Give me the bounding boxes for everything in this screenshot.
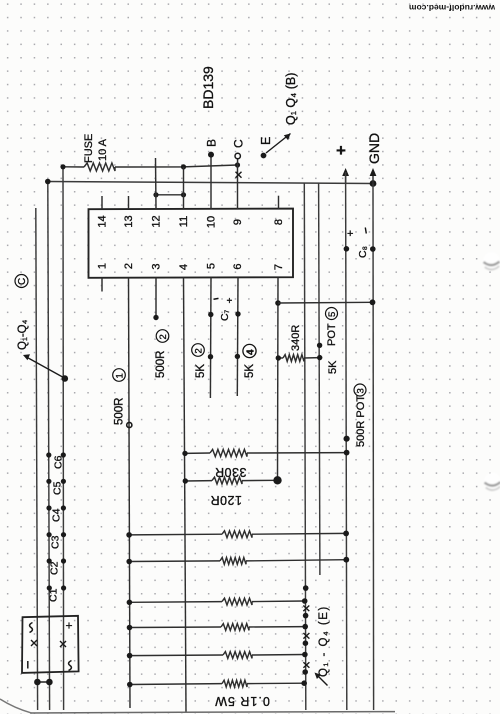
svg-text:10 A: 10 A [97, 138, 109, 161]
svg-text:C1: C1 [48, 588, 60, 602]
x mark on emitter rail between rows 5-6 [303, 606, 309, 612]
BR1 x mark right [60, 641, 66, 647]
svg-text:3: 3 [355, 388, 366, 393]
node tap dot for Q1-Q4 (C) on rail C [62, 375, 69, 382]
svg-text:11: 11 [178, 216, 190, 227]
svg-text:BD139: BD139 [200, 66, 216, 109]
BR1 x mark left [31, 640, 37, 646]
resistor row 3 (pin2 rail to + rail) [129, 531, 346, 538]
capacitor C8 between + rail and GND rail [344, 246, 350, 252]
pin 7 rail down to 120R node [277, 278, 280, 481]
svg-text:8: 8 [273, 219, 285, 225]
svg-text:1: 1 [114, 373, 125, 378]
resistor 120R row [185, 477, 277, 484]
tap circle on pin 2 rail (500R pot wiper) [127, 422, 132, 427]
junction dot row3 right [343, 531, 349, 537]
label 500R (1) [113, 369, 126, 425]
wire: left rail B (filter bank rail, from node at y182) [48, 182, 50, 711]
junction dot row5 left [127, 600, 133, 606]
capacitor C7 label with polarity [214, 296, 233, 321]
junction dot row6 right [302, 624, 308, 630]
resistor row 6 (pin2 rail to emitter rail) [130, 624, 306, 631]
junction dot pin7 / horizontal link [275, 300, 281, 306]
label Q1-Q4 (E) with arrow [315, 605, 331, 685]
svg-text:E: E [259, 137, 273, 145]
svg-text:9: 9 [232, 219, 244, 225]
junction dot pot rail upper tap [317, 343, 322, 348]
junction dot at fuse left end on rail C [60, 164, 65, 169]
resistor row 4 (pin2 rail to + rail) [129, 558, 346, 565]
junction dot strap/pin12 [153, 192, 158, 197]
svg-text:4: 4 [245, 349, 256, 355]
svg-text:Q₁ Q₄ (B): Q₁ Q₄ (B) [284, 73, 298, 125]
svg-text:+: + [227, 296, 233, 307]
terminal B dot [208, 152, 214, 158]
junction dot row6 left [127, 625, 133, 631]
pin 4 rail (down to bottom) [184, 278, 187, 713]
label FUSE 10A [83, 134, 109, 163]
svg-text:5K: 5K [195, 364, 207, 378]
svg-text:Q₁ - Q₄ (E): Q₁ - Q₄ (E) [318, 605, 330, 677]
BR1 ~ mark bottom-right [69, 661, 72, 671]
node GND (ground arrow) [370, 168, 377, 184]
label 5K POT (5) [326, 308, 340, 375]
fuse F1 (FUSE 10A) with wire to pin 11 and node under C [63, 163, 238, 171]
heavy node dot 120R right / pin 7 rail end [273, 476, 281, 484]
svg-text:C: C [232, 139, 246, 148]
capacitor C5 dots [46, 479, 66, 484]
svg-text:C3: C3 [50, 535, 62, 549]
tap dot on + rail for 500R POT (3) [344, 436, 350, 442]
junction dot row8 right [301, 680, 307, 686]
junction dot bus right end (GND node) [370, 180, 377, 187]
wire: right rail 1 (emitter rail to Q1-Q4 E) [304, 184, 306, 711]
svg-text:13: 13 [123, 215, 135, 227]
wire: main horizontal bus y=182 from rail B to GND node [48, 182, 373, 184]
paper corner curl bottom-left [0, 699, 32, 713]
junction dot 330R left on pin4 rail [182, 451, 187, 456]
BR1 - mark bottom-left [27, 661, 29, 669]
dot C7 left on pin 5 [208, 312, 213, 317]
svg-text:C6: C6 [53, 455, 65, 469]
capacitor C2 dots [47, 558, 66, 563]
dot wiper on pin 6 [235, 354, 240, 359]
resistor 340R between pin7 rail and pot rail [278, 355, 319, 362]
wire: left rail C (fused positive rail) [62, 167, 65, 710]
pin 6 line [236, 278, 239, 397]
svg-text:5: 5 [327, 312, 338, 317]
pin 3 stub with end dot [155, 278, 157, 318]
svg-text:4: 4 [178, 264, 190, 270]
dot C7 right on pin 6 [235, 311, 240, 316]
dot wiper on pin 5 [208, 354, 213, 359]
resistor row 5 (pin2 rail to emitter rail) [129, 598, 304, 605]
svg-text:+: + [347, 228, 353, 240]
svg-text:0.1R 5W: 0.1R 5W [214, 694, 270, 708]
svg-text:340R: 340R [290, 325, 302, 351]
svg-text:Q₁-Q₄: Q₁-Q₄ [17, 319, 29, 350]
capacitor C3 dots [47, 532, 67, 537]
svg-text:7: 7 [273, 264, 285, 270]
svg-text:C5: C5 [52, 481, 64, 495]
label 500R (2) [155, 330, 169, 378]
pin 5 line [209, 278, 212, 399]
label 5K (4) [243, 344, 256, 378]
svg-text:C₇: C₇ [219, 309, 231, 321]
strap dot right [46, 679, 53, 686]
junction dot row4 left [126, 559, 132, 565]
label C8 with polarity [347, 228, 369, 259]
label 5K (2) [192, 344, 207, 378]
svg-text:6: 6 [232, 263, 244, 269]
junction dot fuse line / pin 9 riser (node under C) [235, 162, 240, 167]
junction dot bus left end on rail B [45, 179, 51, 185]
junction dot row8 left [127, 682, 133, 688]
junction dot 120R left on pin4 rail [183, 478, 188, 483]
wire: right rail 4 (GND rail) [372, 184, 375, 711]
svg-text:3: 3 [151, 263, 163, 269]
junction dot link / GND rail [370, 299, 376, 305]
svg-text:2: 2 [123, 263, 135, 269]
junction dot row7 right [302, 652, 308, 658]
bridge rectifier BR1 body [22, 616, 79, 673]
svg-text:POT: POT [326, 323, 338, 346]
junction dot 340R right on pot rail [317, 355, 322, 360]
svg-text:2: 2 [158, 334, 169, 339]
svg-text:C2: C2 [49, 561, 61, 575]
pin 8 stub [278, 196, 280, 209]
punch hole upper [483, 252, 499, 269]
x mark on emitter rail between rows 7-8 [303, 662, 309, 668]
wire: right rail 2 (pot rail, 5K POT) [319, 184, 320, 576]
svg-text:500R POT: 500R POT [355, 395, 367, 447]
resistor 330R row [185, 449, 347, 456]
svg-text:500R: 500R [114, 398, 126, 426]
wire: strap between pin 12 and pin 11 at y=195 [156, 194, 184, 196]
pin 12 riser [155, 158, 158, 209]
junction dot row7 left [127, 653, 133, 659]
junction dot 330R right on + rail [344, 450, 350, 456]
junction dot row3 left [126, 532, 132, 538]
svg-text:5: 5 [206, 263, 218, 269]
dot at pin 3 end [153, 315, 158, 320]
svg-text:12: 12 [151, 215, 163, 227]
svg-text:14: 14 [97, 215, 109, 227]
arrow to label Q1-Q4 (C) [23, 354, 64, 377]
svg-text:C4: C4 [51, 508, 63, 522]
svg-text:B: B [205, 139, 219, 147]
junction dot row5 right [302, 598, 308, 604]
pin 14 stub [101, 196, 103, 209]
svg-text:FUSE: FUSE [83, 134, 95, 163]
terminal E dot [261, 153, 267, 159]
capacitor C1 dots [47, 585, 66, 590]
pin 2 rail (down to emitter resistor bank) [129, 278, 131, 709]
junction dot fuse line / pin 11 [181, 164, 186, 169]
svg-text:+: + [336, 141, 346, 160]
junction dot row4 right [343, 557, 349, 563]
BR1 ~ mark top-left [30, 623, 33, 633]
terminal C open circle [235, 153, 240, 158]
x mark on emitter rail between rows 6-7 [303, 633, 309, 639]
svg-text:5K: 5K [244, 364, 256, 378]
paper bottom edge [30, 712, 395, 713]
capacitor C4 dots [46, 505, 66, 510]
arrow from E toward Q1 Q4 (B) [266, 134, 291, 154]
svg-text:2: 2 [193, 348, 204, 353]
svg-text:5K: 5K [327, 360, 339, 374]
pin 11 riser to fuse line [183, 167, 185, 209]
emitter rail solder dots column [302, 585, 308, 675]
label Q1-Q4 (C) [15, 275, 29, 351]
junction dot 340R left [276, 355, 281, 360]
resistor row 7 (pin2 rail to emitter rail) [130, 652, 305, 659]
wire: right rail 3 (+ rail) [346, 172, 347, 710]
capacitor C6 dots [46, 452, 66, 457]
pin 13 stub [128, 196, 130, 209]
pin 10 riser to terminal B [210, 155, 212, 209]
junction dot strap/pin11 [181, 192, 186, 197]
svg-text:+: + [66, 619, 73, 633]
x mark on pin 9 riser [236, 172, 242, 178]
op-amp U1 (14-pin IC body) [89, 209, 294, 278]
svg-text:10: 10 [206, 216, 218, 228]
strap dot left [34, 679, 41, 686]
label 500R POT (3) [354, 384, 367, 447]
svg-text:GND: GND [366, 133, 382, 164]
node + (positive output arrow) [342, 168, 349, 184]
svg-text:C: C [17, 278, 28, 285]
strap below bridge between rails A and B [37, 681, 49, 683]
pin 9 riser [237, 159, 239, 209]
resistor row 8: 0.1R 5W (pin2 rail to emitter rail) [130, 680, 304, 687]
pin 1 stub [101, 278, 103, 292]
svg-text:www.rudolf-med.com: www.rudolf-med.com [409, 3, 497, 13]
svg-text:1: 1 [97, 263, 109, 269]
svg-text:C₈: C₈ [357, 246, 369, 258]
punch hole lower [484, 473, 500, 490]
svg-text:120R: 120R [210, 493, 242, 507]
wire: left rail A (bridge AC input rail) [36, 208, 38, 710]
svg-text:500R: 500R [155, 351, 167, 379]
wire: link pin7 to GND rail at y302 [278, 301, 373, 304]
